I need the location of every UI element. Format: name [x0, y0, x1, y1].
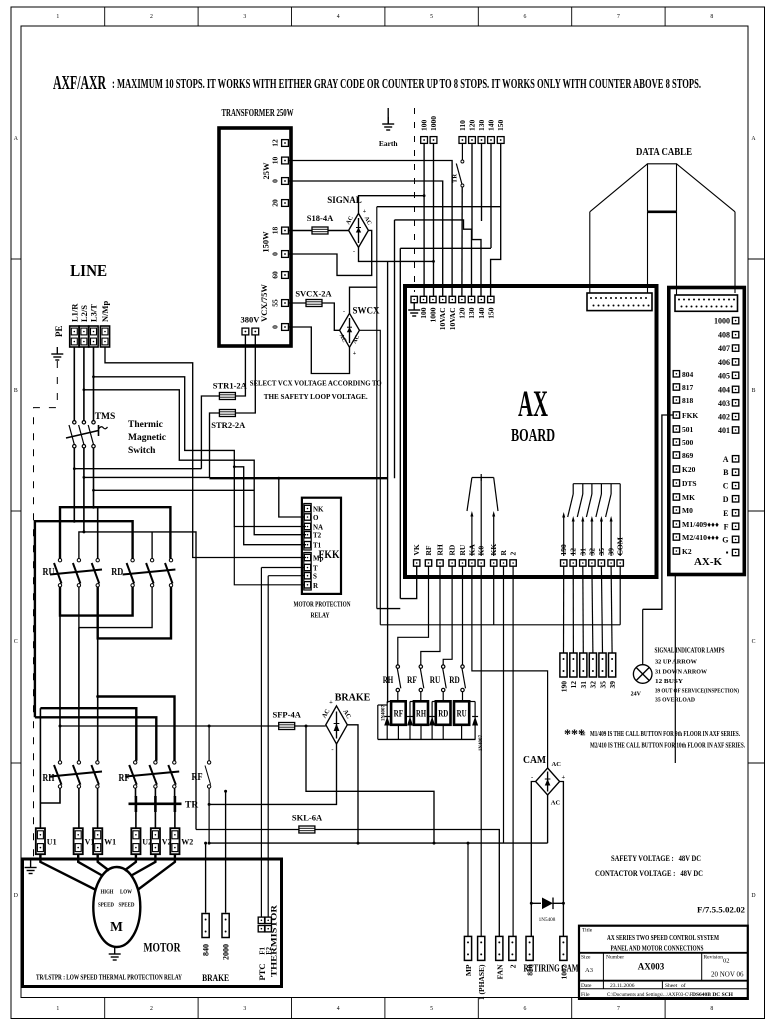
svg-text:130: 130	[477, 120, 486, 132]
terminal 1000	[430, 137, 437, 144]
svg-text:55: 55	[271, 299, 280, 307]
svg-text:24V: 24V	[631, 692, 642, 698]
svg-text:MP: MP	[464, 964, 473, 976]
wire L2 TMS out to bus 531	[83, 448, 85, 532]
svg-text:PE: PE	[54, 325, 64, 337]
svg-text:STR1-2A: STR1-2A	[213, 381, 248, 391]
wire h608	[377, 608, 401, 610]
svg-text:3: 3	[243, 1006, 246, 1012]
svg-text:M0: M0	[682, 506, 693, 515]
wire STR2 left down	[210, 413, 220, 477]
svg-text:0: 0	[271, 179, 280, 183]
wire VK net	[400, 566, 416, 598]
svg-text:LINE: LINE	[70, 261, 107, 280]
svg-text:2000: 2000	[221, 944, 230, 960]
wire SKL to FAN	[315, 830, 499, 937]
svg-text:VCX/75W: VCX/75W	[259, 284, 269, 322]
svg-text:+: +	[363, 209, 367, 215]
svg-text:817: 817	[682, 383, 694, 392]
svg-text:L1/R: L1/R	[69, 303, 79, 322]
svg-text:R: R	[499, 550, 508, 556]
svg-text:D: D	[751, 893, 755, 899]
svg-text:TR/LSTPR : LOW SPEED THERMAL P: TR/LSTPR : LOW SPEED THERMAL PROTECTION …	[36, 975, 182, 982]
enclosure ground	[25, 861, 37, 874]
PE ground	[51, 347, 63, 360]
svg-text:405: 405	[718, 371, 730, 380]
wire board RF to switch RH	[398, 566, 429, 665]
AX-K terminal board	[669, 288, 745, 575]
switch TR on 110 line	[461, 143, 463, 160]
svg-text:THE SAFETY LOOP VOLTAGE.: THE SAFETY LOOP VOLTAGE.	[264, 392, 368, 401]
svg-text:RH: RH	[383, 676, 394, 686]
svg-text:VK: VK	[412, 544, 421, 555]
svg-text:T: T	[313, 565, 318, 573]
svg-text:LOW: LOW	[120, 889, 132, 896]
control bus 478	[210, 477, 388, 479]
wire RH p2 to V1	[78, 788, 80, 828]
sections appended below	[201, 108, 433, 625]
svg-text:140: 140	[477, 307, 486, 319]
svg-text:0: 0	[271, 325, 280, 329]
wire jog to board pin 130	[395, 220, 472, 296]
wire phase V down to RH p2	[78, 628, 80, 761]
svg-text:M2/410♦♦♦: M2/410♦♦♦	[682, 533, 719, 542]
svg-text:BRAKE: BRAKE	[335, 693, 371, 704]
title block	[579, 926, 748, 999]
motor lead W2	[138, 854, 175, 890]
terminal L3/T	[89, 326, 98, 347]
svg-text:B: B	[752, 388, 756, 394]
svg-text:25W: 25W	[261, 162, 271, 180]
thermal relay TR	[129, 796, 182, 812]
terminal 130	[478, 137, 485, 144]
svg-text:7: 7	[617, 14, 620, 20]
wire RH p1 to U1 jog	[40, 788, 60, 803]
earth symbol	[387, 108, 389, 124]
motor lead V1	[78, 854, 103, 876]
wire MP feeder	[467, 843, 469, 936]
FKK pin T2	[304, 532, 310, 538]
wire FKK T feed	[261, 567, 304, 569]
motor M	[93, 867, 140, 947]
svg-text:AX: AX	[518, 384, 548, 425]
svg-text:E: E	[723, 509, 728, 518]
svg-text:PANEL AND MOTOR CONNECTIONS: PANEL AND MOTOR CONNECTIONS	[611, 944, 704, 953]
svg-text:2: 2	[150, 1006, 153, 1012]
bus wire 507	[60, 507, 170, 558]
wire L3 tap to NA trunk	[94, 489, 255, 491]
svg-text:110: 110	[458, 120, 467, 131]
PE dashed bonding wire	[34, 361, 58, 859]
relay coil RU	[454, 701, 469, 725]
svg-text:12: 12	[271, 139, 280, 147]
svg-text:1: 1	[56, 1006, 59, 1012]
svg-text:CAM: CAM	[523, 755, 547, 766]
AX-K letter pins	[732, 456, 738, 462]
svg-text:MOTOR PROTECTION: MOTOR PROTECTION	[294, 601, 352, 609]
wire signal minus down	[359, 247, 434, 261]
wire 0-150W to signal AC right	[288, 230, 371, 275]
svg-text:02: 02	[723, 958, 730, 965]
svg-text:10: 10	[271, 157, 280, 165]
wire cam bottom to bus	[547, 795, 549, 843]
svg-text:380V: 380V	[241, 315, 261, 325]
svg-text:407: 407	[718, 344, 730, 353]
svg-text:20 NOV 06: 20 NOV 06	[711, 971, 744, 979]
transformer pin 0 (150W)	[282, 251, 289, 258]
FKK pin S	[304, 573, 310, 579]
svg-text:869: 869	[682, 451, 694, 460]
svg-text:M2/410 IS THE CALL BUTTON FOR: M2/410 IS THE CALL BUTTON FOR 10th FLOOR…	[590, 742, 745, 750]
motor lead V2	[131, 854, 156, 876]
wire FKK S feed	[268, 575, 304, 577]
svg-text:0: 0	[271, 252, 280, 256]
svg-text:RD: RD	[111, 566, 123, 578]
coil top ties	[378, 702, 475, 740]
wire 55 to fuse to swcx	[288, 302, 306, 304]
transformer pin 0 (VCX)	[282, 324, 289, 331]
board pin1 ground	[408, 303, 420, 316]
svg-text:Switch: Switch	[128, 446, 156, 456]
svg-text:SWCX: SWCX	[352, 306, 380, 316]
terminal 120	[469, 137, 476, 144]
relay coil RF	[391, 701, 406, 725]
svg-text:10VAC: 10VAC	[448, 308, 457, 331]
motor lead W1	[98, 854, 109, 870]
svg-text:RH: RH	[43, 772, 55, 784]
svg-text:130: 130	[467, 307, 476, 319]
svg-text:408: 408	[718, 331, 730, 340]
svg-text:8: 8	[710, 1006, 713, 1012]
wire 18 to fuse to bridge	[288, 230, 312, 232]
terminal U1	[36, 828, 45, 854]
svg-text:403: 403	[718, 399, 730, 408]
wire VK upper trunk	[400, 247, 491, 249]
wire brake bridge right to cam bus	[347, 725, 358, 843]
svg-text:D: D	[14, 893, 18, 899]
wire COM to lamp	[619, 566, 621, 625]
transformer pin 12	[282, 140, 289, 147]
svg-text:AX003: AX003	[638, 962, 665, 972]
svg-text:: MAXIMUM 10 STOPS. IT WORKS W: : MAXIMUM 10 STOPS. IT WORKS WITH EITHER…	[112, 77, 701, 92]
TITLE	[53, 73, 701, 94]
svg-text:804: 804	[682, 370, 694, 379]
svg-text:+: +	[562, 774, 566, 781]
transformer pin 60	[282, 272, 289, 279]
svg-text:B: B	[14, 388, 18, 394]
svg-text:SVCX-2A: SVCX-2A	[295, 289, 332, 299]
transformer pin 10	[282, 157, 289, 164]
terminal 110	[459, 137, 466, 144]
wire aux vertical 394	[394, 220, 396, 478]
motor lead U1	[40, 854, 96, 890]
svg-text:U1: U1	[47, 838, 57, 847]
wire U1 drop	[39, 708, 41, 828]
FKK pin O	[304, 514, 310, 520]
board bottom-right pin row	[561, 560, 567, 566]
svg-text:1 (PHASE): 1 (PHASE)	[477, 964, 486, 1000]
wire SFP to brake bridge	[295, 725, 326, 727]
wire brake phase 726	[60, 725, 279, 727]
svg-text:401: 401	[718, 426, 730, 435]
svg-text:G: G	[722, 535, 728, 544]
svg-text:PTC: PTC	[257, 964, 267, 981]
thermistor terminals F1 F2	[258, 917, 264, 923]
wire cam left to 810	[531, 782, 535, 937]
svg-text:35: 35	[598, 681, 607, 689]
svg-text:RU: RU	[458, 544, 467, 555]
bus wire 521	[35, 521, 133, 717]
svg-text:1: 1	[56, 14, 59, 20]
svg-text:818: 818	[682, 396, 694, 405]
wire brake tap to 2000	[306, 726, 434, 843]
transformer pin 55	[282, 300, 289, 307]
svg-text:150W: 150W	[261, 231, 271, 253]
svg-text:-: -	[331, 747, 333, 754]
svg-text:39 OUT OF SERVICE(INSPECTION): 39 OUT OF SERVICE(INSPECTION)	[655, 688, 739, 695]
svg-text:FKK: FKK	[682, 411, 698, 420]
svg-text:T1: T1	[313, 542, 322, 550]
wire L3 TMS out to bus 507	[93, 448, 95, 507]
svg-text:+: +	[353, 351, 357, 357]
svg-text:60: 60	[271, 271, 280, 279]
svg-text:TR: TR	[185, 801, 198, 811]
wire K0 to terminal 1	[480, 566, 482, 936]
wire 0-VCX to swcx bottom	[288, 327, 349, 374]
svg-text:SIGNAL INDICATOR LAMPS: SIGNAL INDICATOR LAMPS	[655, 646, 725, 655]
svg-text:120: 120	[457, 307, 466, 319]
svg-text:12 BUSY: 12 BUSY	[655, 678, 684, 685]
svg-text:32 UP ARROW: 32 UP ARROW	[655, 659, 698, 666]
svg-text:L2/S: L2/S	[79, 305, 89, 322]
crossover bus 717	[35, 717, 156, 760]
wire R to cam bus	[503, 566, 505, 843]
svg-text:DTS: DTS	[682, 479, 697, 488]
wire bus to FKK O	[279, 478, 304, 517]
svg-text:-: -	[343, 309, 345, 315]
relay coil RD	[436, 701, 451, 725]
svg-text:31 DOWN ARROW: 31 DOWN ARROW	[655, 669, 708, 676]
svg-text:Date: Date	[581, 983, 592, 989]
terminal W1	[93, 828, 102, 854]
wire RF single drop	[208, 726, 210, 761]
svg-text:1000: 1000	[714, 317, 730, 326]
terminal strip 190	[560, 653, 567, 677]
svg-text:Magnetic: Magnetic	[128, 433, 166, 443]
junction dots	[423, 194, 426, 197]
wire RD p2 feed	[151, 532, 153, 559]
svg-text:File: File	[581, 992, 590, 998]
svg-text:BRAKE: BRAKE	[202, 974, 229, 984]
relay coil RH	[414, 701, 428, 725]
svg-text:1000: 1000	[428, 307, 437, 322]
bus wire 638 RU3-RD3	[98, 587, 171, 638]
svg-text:Revision: Revision	[704, 955, 724, 961]
svg-text:D: D	[723, 495, 729, 504]
diode D-RH	[407, 702, 413, 740]
wire brake minus	[209, 744, 336, 804]
svg-text:RD: RD	[448, 544, 457, 555]
retiring cam bus 843	[209, 842, 547, 844]
svg-text:Size: Size	[581, 955, 591, 961]
svg-text:12: 12	[569, 681, 578, 689]
junction dots	[73, 467, 76, 470]
svg-text:Sheet: Sheet	[665, 983, 678, 989]
wire RF aux bottom down	[208, 788, 210, 843]
svg-text:DS640B DC SCH: DS640B DC SCH	[692, 992, 734, 998]
svg-text:NK: NK	[313, 506, 324, 514]
svg-text:K20: K20	[682, 465, 696, 474]
svg-text:THERMISTOR: THERMISTOR	[269, 905, 278, 977]
svg-text:RF: RF	[394, 709, 404, 719]
wire bus drop to relay diodes	[387, 261, 389, 703]
svg-text:120: 120	[468, 120, 477, 132]
svg-text:CONTACTOR VOLTAGE : 48V DC: CONTACTOR VOLTAGE : 48V DC	[595, 868, 703, 878]
svg-text:Earth: Earth	[379, 139, 399, 148]
wire KA to CAM	[472, 566, 548, 768]
svg-text:RETIRING CAM: RETIRING CAM	[524, 964, 579, 975]
wire L2 tap to FKK T2 trunk	[84, 390, 306, 535]
svg-text:+: +	[329, 699, 333, 706]
wire swcx AC bus to lamp	[380, 624, 620, 626]
svg-text:C: C	[752, 639, 756, 645]
wire board RH to switch RF	[421, 566, 440, 665]
svg-text:A: A	[723, 455, 729, 464]
terminal 2	[509, 936, 516, 960]
svg-text:C:\Documents and Settings\...\: C:\Documents and Settings\...\AXF03-C\F	[607, 993, 693, 998]
lamp L1 24V	[642, 609, 644, 665]
terminal V1	[74, 828, 83, 854]
terminal 140	[488, 137, 495, 144]
AX-K right pin column	[732, 317, 738, 323]
wire FKK pin to lamp net	[643, 415, 673, 609]
svg-text:Number: Number	[606, 955, 624, 961]
terminal FAN	[496, 936, 503, 960]
svg-text:T2: T2	[313, 532, 322, 540]
wire L1 tap to STR1	[74, 468, 201, 470]
FKK pin Mp	[304, 554, 310, 560]
svg-text:-: -	[353, 249, 355, 255]
svg-text:Mp: Mp	[313, 555, 324, 563]
terminal 100	[421, 137, 428, 144]
junction dots	[357, 842, 360, 845]
AX-K connector J2	[675, 295, 738, 311]
wires switches to coils	[397, 692, 399, 702]
svg-text:32: 32	[589, 681, 598, 689]
svg-text:1N5408: 1N5408	[539, 917, 556, 923]
svg-text:AC: AC	[552, 761, 562, 768]
brake terminal 840	[202, 914, 209, 938]
junction dots	[73, 520, 76, 523]
wire board RU to switch RD	[462, 566, 464, 665]
wire TR to board pin 120	[461, 187, 463, 296]
svg-text:RF: RF	[407, 676, 417, 686]
wire swcx right AC to trunk	[359, 330, 380, 625]
motor ground	[109, 947, 121, 960]
wire signal plus up	[359, 196, 425, 214]
diode 1N5408	[531, 898, 563, 910]
wire phase W down to RH p3	[97, 638, 99, 760]
svg-text:2: 2	[509, 552, 518, 556]
junction dots	[277, 477, 280, 480]
svg-text:150: 150	[496, 120, 505, 132]
svg-text:35 OVERLOAD: 35 OVERLOAD	[655, 697, 695, 704]
wire 380V left pin to STR1	[235, 335, 245, 396]
wire swcx top to trunk	[350, 287, 377, 313]
coil bottom drops	[398, 725, 461, 740]
thermistor wires	[260, 568, 262, 918]
svg-text:RD: RD	[449, 676, 460, 686]
motor enclosure box	[23, 859, 282, 987]
svg-text:404: 404	[718, 385, 730, 394]
svg-text:5: 5	[430, 1006, 433, 1012]
wire L2 to TMS	[83, 347, 85, 421]
svg-text:18: 18	[271, 227, 280, 235]
svg-text:SPEED: SPEED	[98, 902, 114, 909]
bus wire 627 RU2-RD2	[79, 587, 152, 628]
board top pin row	[411, 296, 417, 302]
svg-text:3: 3	[243, 14, 246, 20]
diode D-RD	[429, 702, 435, 740]
svg-text:RELAY: RELAY	[311, 612, 331, 620]
fuse STR2-2A	[219, 410, 235, 417]
svg-text:RD: RD	[438, 709, 448, 719]
terminal MP	[464, 936, 471, 960]
svg-text:406: 406	[718, 358, 730, 367]
svg-text:840: 840	[201, 944, 210, 956]
FKK pin R	[304, 582, 310, 588]
svg-text:SPEED: SPEED	[119, 902, 135, 909]
wire bus 206	[377, 206, 501, 208]
svg-text:2: 2	[150, 14, 153, 20]
wire 2 to terminal 2	[512, 566, 514, 936]
svg-text:SKL-6A: SKL-6A	[292, 813, 323, 823]
svg-text:SAFETY VOLTAGE : 48V DC: SAFETY VOLTAGE : 48V DC	[611, 853, 701, 863]
terminal strip 39	[609, 653, 616, 677]
svg-text:N/Mp: N/Mp	[100, 300, 110, 322]
svg-text:▪: ▪	[726, 548, 729, 557]
svg-text:L3/T: L3/T	[89, 304, 99, 322]
svg-text:SIGNAL: SIGNAL	[327, 195, 362, 205]
svg-text:39: 39	[608, 681, 617, 689]
wire board RD to switch RU	[443, 566, 452, 665]
wire below AX-K	[674, 575, 676, 764]
svg-text:S18-4A: S18-4A	[307, 213, 334, 223]
svg-text:1N4007: 1N4007	[479, 734, 484, 751]
svg-text:150: 150	[486, 307, 495, 319]
FKK pin T	[304, 564, 310, 570]
terminal L2/S	[79, 326, 88, 347]
svg-text:501: 501	[682, 425, 694, 434]
terminal strip 31	[580, 653, 587, 677]
svg-text:SFP-4A: SFP-4A	[273, 710, 302, 720]
svg-text:AC: AC	[551, 800, 561, 807]
svg-text:HIGH: HIGH	[101, 889, 114, 896]
svg-text:AX-K: AX-K	[694, 557, 723, 568]
wire L3 tap to FKK T1 trunk	[94, 377, 307, 545]
svg-text:31: 31	[579, 681, 588, 689]
crossover bus 696	[98, 697, 175, 761]
svg-text:M1/409♦♦♦: M1/409♦♦♦	[682, 520, 719, 529]
FKK pin T1	[304, 542, 310, 548]
wire 130 terminal down	[481, 143, 483, 221]
wire 10 to 10VAC	[288, 161, 452, 297]
terminal L1/R	[70, 326, 79, 347]
AX board U1	[405, 286, 657, 577]
wire 100 terminal down to board	[423, 143, 425, 296]
svg-text:1000: 1000	[429, 116, 438, 131]
svg-text:TMS: TMS	[95, 412, 116, 422]
